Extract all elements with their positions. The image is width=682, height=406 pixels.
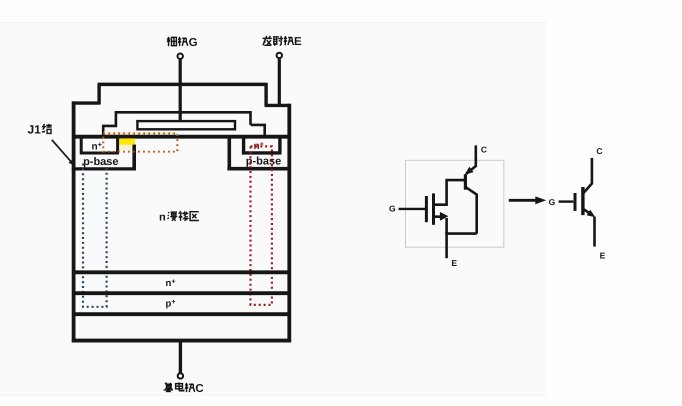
orange dotted MOSFET cell outline [103,133,177,151]
igbt collector [583,158,592,194]
cream band above surface [104,132,178,135]
label n+ buffer [166,278,176,289]
label n+ right [254,140,265,153]
label p-base left [83,156,118,168]
label p+ substrate [166,299,176,310]
left metal step [72,84,99,104]
terminal E circle [277,53,282,58]
wire G lead equiv [399,208,426,210]
igbt emitter with arrow [583,209,595,218]
equivalent circuit gray box [406,160,504,247]
label C symbol [596,146,602,156]
top emitter plate [98,83,267,87]
wire G lead symbol [559,200,574,202]
right p-base box [227,138,291,169]
wire E lead symbol [593,217,596,247]
label J1 junction [28,123,52,137]
bottom wire to pnp collector [445,232,476,235]
svg-text:p-base: p-base [83,156,118,168]
svg-text:C: C [195,383,203,395]
svg-text:E: E [294,36,302,48]
right n+ emitter box [242,138,282,153]
svg-text:J1: J1 [28,123,42,137]
yellow contact [119,138,135,150]
left p-base bottom [72,167,136,170]
label 集电极C [164,383,204,395]
svg-text:G: G [389,204,396,214]
label 栅极G [167,37,198,49]
n+ buffer top line [72,270,291,274]
outer right wall [287,104,291,343]
svg-text:C: C [596,146,602,156]
mosfet gate bar [425,196,428,222]
collector metal top line [72,312,291,316]
left n+ emitter box [80,138,119,153]
big arrow [509,196,546,204]
wire E lead [278,59,281,105]
left p-base right edge [132,145,136,169]
label G symbol [549,197,556,207]
mosfet drain wire to pnp base [434,180,466,205]
igbt gate bar [574,193,577,211]
label 发射极E [263,36,302,48]
svg-text:E: E [451,258,457,268]
label G equiv [389,204,396,214]
p+ top line [72,291,291,295]
label C equiv [481,144,487,154]
svg-text:G: G [189,37,198,49]
pnp base bar [464,174,467,189]
gate polysilicon [137,121,235,129]
bottom collector line [72,339,291,343]
label n drift region [159,211,199,223]
outer left wall [72,101,76,342]
right metal step [265,83,291,106]
wire E lead equiv [445,234,448,259]
svg-text:G: G [549,197,556,207]
terminal C circle [178,373,183,378]
pnp emitter arrow [465,167,474,175]
label n+ left [92,140,103,153]
label p-base right [246,155,281,167]
wire G lead [179,60,182,122]
blue dotted current path [83,164,107,307]
svg-text:E: E [600,250,606,260]
igbt base bar [581,187,584,215]
wire C lead [179,342,182,373]
red dotted current path [251,146,272,305]
pnp collector [465,187,476,234]
label E equiv [451,258,457,268]
mosfet channel bar [432,193,435,224]
gate stack outline [102,111,265,137]
terminal G circle [178,54,183,59]
svg-text:C: C [481,144,487,154]
wire C lead equiv [466,145,476,174]
svg-text:n: n [159,211,166,223]
mosfet source wire [434,212,449,234]
J1 arrow [52,140,75,166]
label E symbol [600,250,606,260]
surface line [72,135,291,139]
